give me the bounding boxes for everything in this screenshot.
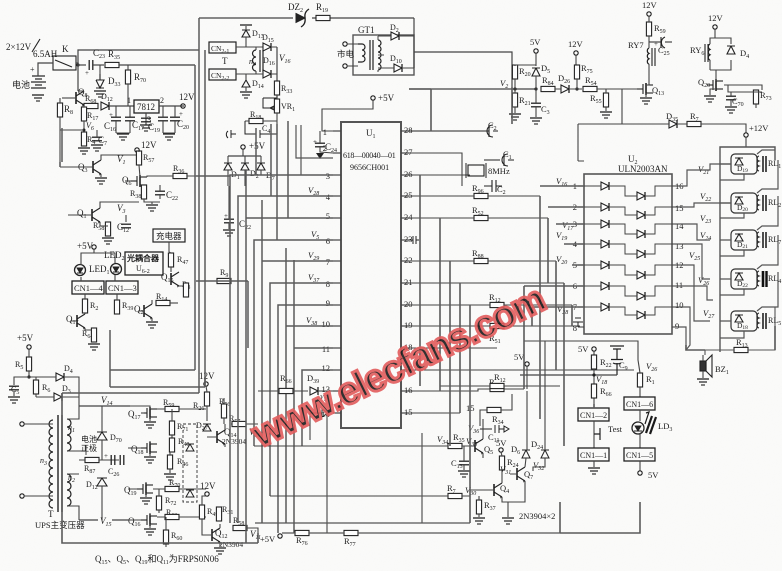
svg-text:10: 10 [322,319,331,329]
wire CN2-1 row [236,46,263,48]
svg-text:+: + [104,452,108,460]
+12V feed bus [720,147,775,352]
svg-text:Test: Test [608,424,623,434]
svg-text:电池: 电池 [81,434,97,444]
wire to 7812 [109,105,134,107]
svg-text:8MHz: 8MHz [488,166,510,176]
wire pin4 row [238,196,333,523]
wire pin10 row [286,248,333,523]
connector CN1-6 [624,397,655,410]
svg-text:UPS主变压器: UPS主变压器 [35,520,85,530]
svg-text:14: 14 [675,221,684,231]
connector CN1-1 [578,448,609,461]
svg-text:7: 7 [326,257,330,267]
svg-text:T: T [48,509,54,519]
U1 left pin stubs [333,131,341,413]
svg-text:22: 22 [404,255,413,265]
diode D22 [735,273,743,280]
wire pin17 long [409,369,634,371]
svg-text:+5V: +5V [249,141,266,151]
GT1 secondary coil [378,40,381,70]
connector CN2-1 [209,42,236,53]
LED2 symbol [111,264,122,275]
svg-text:CN1—5: CN1—5 [626,451,653,460]
svg-text:2: 2 [323,143,327,153]
connector CN1-5 [624,448,655,461]
svg-text:6: 6 [326,236,330,246]
svg-text:28: 28 [404,125,413,135]
svg-text:5V: 5V [530,37,541,47]
svg-text:RY7: RY7 [628,40,644,50]
wire V18 rail [520,374,617,376]
connector CN1-2 [578,408,609,421]
svg-text:电池: 电池 [12,79,30,90]
wire pin8 row [270,283,333,496]
wire V16 column down [276,124,278,240]
wire pin15 [409,412,460,414]
wire D1 D2 D7 columns down [256,121,288,218]
svg-text:CN1—3: CN1—3 [108,283,137,293]
svg-text:10: 10 [675,300,684,310]
svg-text:12V: 12V [141,140,157,150]
svg-text:19: 19 [404,320,413,330]
svg-text:2N3904: 2N3904 [222,437,246,446]
svg-text:5: 5 [326,211,330,221]
U2 diodes column2 [637,192,645,319]
watermark www.elecfans.com [245,278,551,456]
relay RL2 assembly [731,193,781,213]
coil RL5 [757,313,759,328]
GT1 right wire down [414,18,512,87]
svg-text:+5V: +5V [17,333,34,343]
svg-text:+: + [30,65,35,74]
wire pin6 row [254,240,333,446]
svg-text:12V: 12V [200,481,216,491]
wire K to top rail [78,50,199,65]
U2 pin8 ground [573,318,583,327]
svg-text:12V: 12V [642,0,658,10]
wire pin7 row [262,200,333,523]
pin23 bypass cap to gnd [409,236,419,244]
svg-text:1: 1 [127,96,131,105]
svg-text:12V: 12V [199,371,215,381]
svg-text:12: 12 [322,363,331,373]
wire C23 to R35 [93,64,104,66]
svg-text:25: 25 [404,190,413,200]
coil RL2 [757,195,759,210]
svg-text:CN1—1: CN1—1 [580,451,607,460]
coil RL7 [757,232,759,247]
svg-text:CN1—6: CN1—6 [626,400,653,409]
svg-text:23: 23 [404,234,413,244]
wire mid horizontals to bus [196,176,248,348]
diode D40 pin14 [322,409,328,417]
box charger 充电器 [153,229,185,242]
svg-text:2: 2 [160,96,164,105]
svg-text:+5V: +5V [378,93,395,103]
svg-text:+5V: +5V [260,534,276,544]
svg-text:T: T [222,56,228,66]
IC U1 labels [343,128,396,172]
wire right border vertical [774,326,776,350]
dashed protection box [183,424,197,502]
wire 7812 out [159,105,184,107]
wires U2 pins to relays [680,164,731,350]
node junction K out [76,63,79,66]
wire V2 row [409,88,537,90]
coil RL1 [757,156,759,171]
crystal X1 8MHz [409,153,470,186]
U2 internal wires [584,186,672,315]
diode D21 [735,234,743,241]
svg-text:21: 21 [404,277,413,287]
winding n2 [67,474,71,506]
wire left long horizontals [60,128,205,393]
svg-text:CN1—2: CN1—2 [580,411,607,420]
svg-text:+12V: +12V [749,123,769,133]
U2 left stubs [578,186,584,327]
capacitor C8 left stub [226,130,236,138]
IC U2 labels [618,154,668,174]
coil RL4 [757,271,759,286]
svg-text:5V: 5V [496,438,507,448]
connector CN1-3 [106,281,138,294]
optocoupler U6-2 box [125,252,163,275]
transformer T core [57,415,59,512]
IC U1 outline [341,122,401,428]
svg-text:+: + [313,138,317,146]
transformer terminals [20,422,24,426]
svg-text:K: K [62,44,69,54]
IC U2 outline [584,174,672,334]
svg-text:15: 15 [404,407,413,417]
svg-text:充电器: 充电器 [156,231,182,241]
svg-text:9: 9 [326,298,330,308]
svg-text:5V: 5V [648,470,659,480]
wire pin11 row [294,260,333,533]
svg-text:2N3904×2: 2N3904×2 [519,511,555,521]
winding n3 [49,420,53,508]
zener D28 [186,490,194,497]
bus wires [255,523,560,533]
svg-text:3: 3 [326,171,330,181]
svg-text:光耦合器: 光耦合器 [126,253,160,263]
svg-text:9: 9 [675,321,679,331]
svg-text:+: + [654,40,658,48]
wire verticals mid right [540,196,572,446]
svg-text:11: 11 [675,280,683,290]
svg-text:618—00040—01: 618—00040—01 [343,151,396,160]
wires LEDs to CN [81,249,115,281]
wire pin16 [409,390,440,392]
svg-text:1: 1 [323,127,327,137]
svg-text:+5V: +5V [77,241,94,251]
svg-text:12V: 12V [179,92,195,102]
svg-text:6.5AH: 6.5AH [33,49,58,59]
GT1 primary coil [358,44,365,62]
svg-text:正极: 正极 [81,443,97,453]
svg-text:5V: 5V [578,344,589,354]
wire pin5 row [246,170,333,533]
wire U2 left feeds [524,186,584,389]
winding n1 [67,419,71,451]
wire pin9 row [278,305,333,533]
wire pin12 row [302,370,333,446]
relay RL4 assembly [731,269,781,289]
wire verticals right of U1 [420,175,470,523]
wire battery to K [38,63,78,76]
svg-text:15: 15 [675,203,684,213]
5V node bottom [638,471,642,475]
wires n1 n2 [67,406,86,520]
diode D19 [735,158,743,165]
relay RL7 assembly [731,230,781,250]
svg-text:2×12V: 2×12V [6,42,32,52]
top rail wire [199,17,414,19]
wire pin21 [409,282,564,284]
diode D18 [735,315,743,322]
svg-text:12V: 12V [568,39,584,49]
svg-text:20: 20 [404,299,413,309]
U1 right pin stubs [401,131,409,413]
svg-text:+: + [85,69,89,77]
wire R35 right [119,64,160,66]
U2 diodes column1 [601,182,609,311]
ground battery [32,95,44,101]
connector CN2-2 [209,69,236,80]
wire pin19 pin18 [409,347,497,349]
wire pin3 row [230,175,333,523]
relay RL5 assembly [731,311,781,331]
svg-text:9656CH001: 9656CH001 [350,163,389,172]
svg-text:13: 13 [675,241,684,251]
wire bottom long rails [62,377,258,543]
svg-text:8: 8 [326,279,330,289]
svg-text:12V: 12V [708,13,724,23]
connector CN1-4 [72,281,104,294]
zener D17 [186,444,194,451]
box around Q20 out [728,85,762,108]
wire relay bus left [686,345,705,350]
svg-text:ULN2003AN: ULN2003AN [618,164,668,174]
relay RL1 assembly [731,154,781,174]
wire x431 vertical [409,89,431,131]
capacitor C18 [158,117,168,121]
diode D20 [735,197,743,204]
svg-text:26: 26 [404,169,413,179]
svg-text:CN1—4: CN1—4 [74,283,104,293]
wire left box verticals [160,18,205,393]
wire +5v net corner [296,125,333,175]
relay interconnect wires [720,150,778,338]
svg-text:11: 11 [322,344,330,354]
regulator 7812 [134,100,159,113]
wire K to C23 [78,64,86,66]
svg-text:市电: 市电 [337,49,355,59]
U2 right stubs [672,186,680,327]
svg-text:24: 24 [404,212,413,222]
wire right vertical x512 [511,87,513,124]
svg-text:27: 27 [404,147,413,157]
svg-text:8: 8 [573,323,577,333]
svg-text:7812: 7812 [137,102,155,112]
svg-text:GT1: GT1 [358,25,375,35]
